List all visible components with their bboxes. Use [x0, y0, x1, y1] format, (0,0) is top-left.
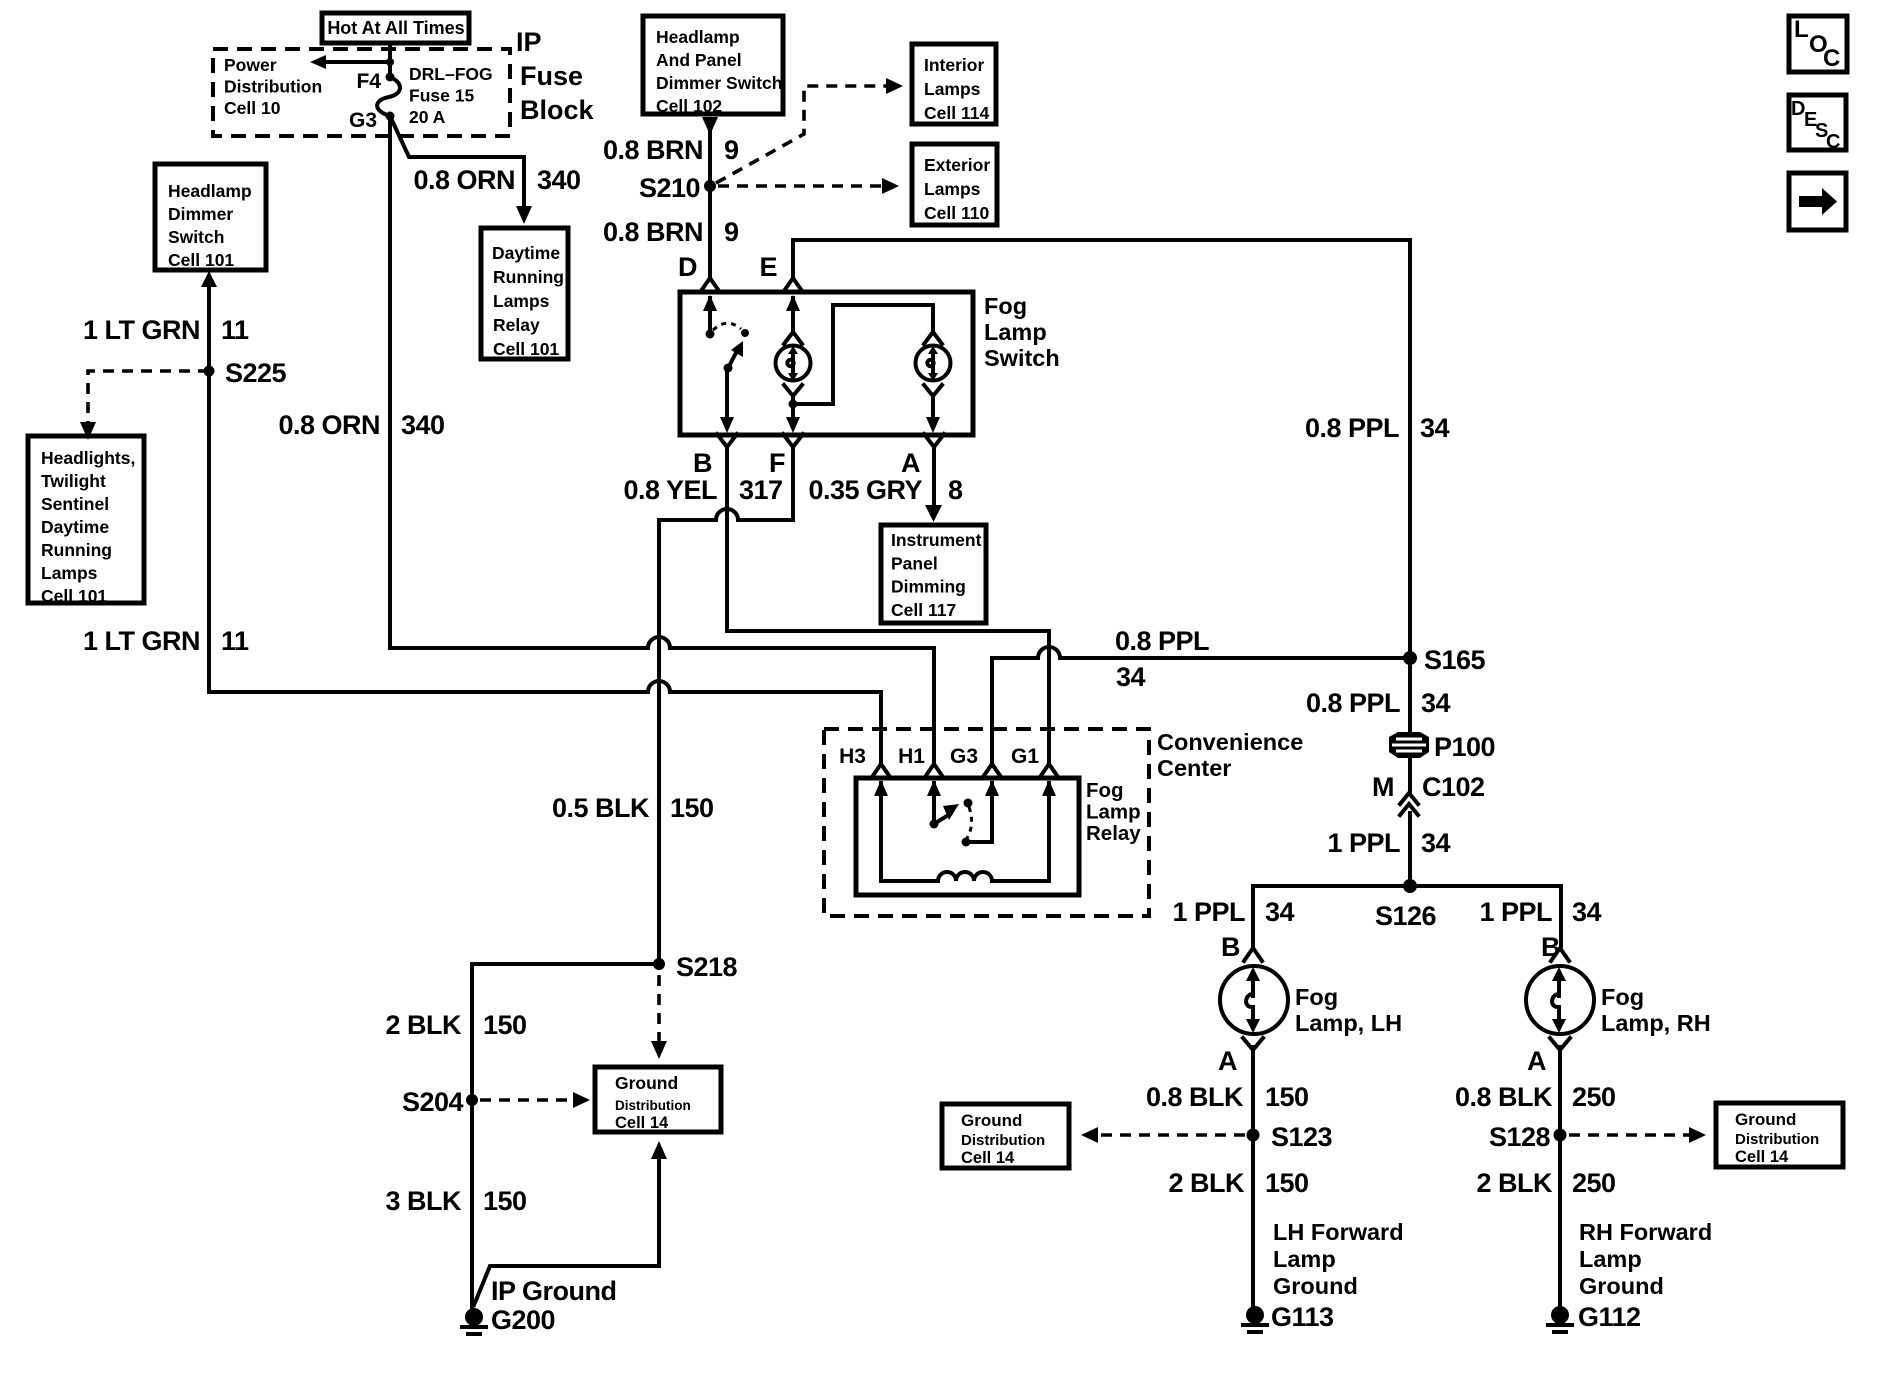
pin F chevron: [783, 434, 803, 455]
Daytime Running Lamps Relay Cell 101 box: [481, 228, 568, 359]
svg-text:2 BLK: 2 BLK: [1476, 1168, 1553, 1198]
ground G200: [462, 1308, 486, 1334]
grommet P100: [1389, 732, 1429, 758]
wire 0.8 BLK lamp LH to S123: [1251, 1047, 1255, 1307]
Headlamp And Panel Dimmer Switch Cell 102 box: [643, 16, 783, 116]
svg-text:Distribution: Distribution: [615, 1098, 691, 1113]
connector C102 chevrons: [1400, 793, 1418, 815]
svg-text:34: 34: [1572, 897, 1602, 927]
svg-text:9: 9: [724, 217, 739, 247]
chevron above lamp 2: [924, 332, 942, 344]
svg-text:34: 34: [1421, 828, 1451, 858]
chevron below lamp 1: [784, 385, 802, 396]
svg-text:A: A: [1218, 1046, 1237, 1076]
Instrument Panel Dimming Cell 117 box: [881, 525, 986, 623]
ground G113: [1243, 1306, 1267, 1332]
svg-text:S165: S165: [1424, 645, 1486, 675]
relay pin G1 chevron: [1040, 764, 1058, 777]
svg-text:E: E: [759, 252, 777, 282]
wire 1 PPL splitter to both fog lamps: [1253, 886, 1561, 946]
wire 0.35 GRY to Instrument Panel Dimming (solid arrow): [925, 455, 942, 522]
node S123: [1247, 1129, 1260, 1142]
svg-text:1 PPL: 1 PPL: [1479, 897, 1552, 927]
wire 0.8 PPL S165 to P100: [1408, 658, 1412, 733]
svg-text:M: M: [1372, 772, 1394, 802]
svg-text:H3: H3: [839, 745, 866, 768]
node F4: [386, 73, 395, 82]
IP fuse block dashed box: [213, 49, 510, 136]
node S165: [1403, 651, 1417, 665]
svg-text:34: 34: [1420, 413, 1450, 443]
dashed S123 to Ground Distribution (arrow left): [1081, 1127, 1245, 1143]
pin A chevron: [924, 434, 944, 455]
wire from Hot At All Times down to fuse: [388, 45, 392, 77]
svg-text:8: 8: [948, 475, 963, 505]
svg-text:2 BLK: 2 BLK: [385, 1010, 462, 1040]
fog lamp LH pin B chevron: [1244, 948, 1262, 961]
svg-text:H1: H1: [898, 745, 925, 768]
svg-text:340: 340: [401, 410, 445, 440]
illumination lamp 1: [776, 346, 811, 382]
svg-text:Cell 14: Cell 14: [961, 1149, 1015, 1167]
switch pole to pin B (arrow down): [720, 368, 734, 433]
node G3: [386, 112, 395, 121]
svg-text:Hot At All Times: Hot At All Times: [327, 18, 464, 38]
svg-text:0.8 BLK: 0.8 BLK: [1455, 1082, 1553, 1112]
svg-text:0.35 GRY: 0.35 GRY: [808, 475, 922, 505]
svg-text:Ground: Ground: [615, 1073, 678, 1093]
internal wire lamp1 node to lamp2: [793, 305, 933, 404]
svg-text:D: D: [678, 252, 697, 282]
svg-text:ExteriorLampsCell 110: ExteriorLampsCell 110: [924, 155, 990, 223]
svg-text:2 BLK: 2 BLK: [1168, 1168, 1245, 1198]
svg-text:150: 150: [1265, 1082, 1309, 1112]
svg-text:0.8 BRN: 0.8 BRN: [603, 217, 703, 247]
node S126: [1403, 879, 1417, 893]
switch E branch chevron: [784, 332, 802, 344]
svg-text:1 LT GRN: 1 LT GRN: [83, 626, 200, 656]
wire lamp2 to pin A (arrow down): [926, 397, 940, 433]
svg-text:S210: S210: [639, 173, 700, 203]
wire lamp1 node to pin F (arrow down): [786, 397, 800, 433]
svg-text:S218: S218: [676, 952, 738, 982]
switch D input contact (arrow up + dot): [703, 295, 717, 339]
svg-text:34: 34: [1421, 688, 1451, 718]
svg-text:A: A: [1527, 1046, 1546, 1076]
wire 0.8 YEL: switch B to relay G1 (passes under hop): [727, 455, 1049, 762]
svg-text:340: 340: [537, 165, 581, 195]
wire 0.8 ORN to DRL relay: [390, 116, 532, 224]
svg-text:0.8 ORN: 0.8 ORN: [413, 165, 515, 195]
chevron below lamp 2: [924, 385, 942, 396]
svg-text:150: 150: [483, 1186, 527, 1216]
svg-text:InteriorLampsCell 114: InteriorLampsCell 114: [924, 55, 989, 123]
Ground Distribution Cell 14 box (RH): [1716, 1103, 1843, 1167]
svg-text:S126: S126: [1375, 901, 1437, 931]
svg-text:G3: G3: [950, 745, 978, 768]
dashed reference to Headlights cell: [80, 371, 209, 440]
svg-text:S128: S128: [1489, 1122, 1551, 1152]
Fog Lamp Switch box: [680, 292, 973, 435]
dashed S128 to Ground Distribution (arrow right): [1569, 1127, 1706, 1143]
fog lamp RH pin A chevron: [1550, 1038, 1570, 1050]
svg-text:11: 11: [221, 315, 249, 345]
node S218: [653, 958, 665, 970]
relay armature H1: [927, 780, 973, 829]
svg-text:Distribution: Distribution: [1735, 1131, 1819, 1148]
svg-text:3 BLK: 3 BLK: [385, 1186, 462, 1216]
wire 0.8 ORN vertical from fuse G3 to H1 feed: [388, 116, 392, 648]
svg-text:0.8 BRN: 0.8 BRN: [603, 135, 703, 165]
wire 0.5 BLK: switch F to S218 (hops B wire): [659, 455, 793, 964]
svg-text:0.8 PPL: 0.8 PPL: [1115, 626, 1209, 656]
svg-text:C: C: [1826, 131, 1840, 153]
Hot At All Times box: [322, 13, 469, 43]
svg-text:0.8 PPL: 0.8 PPL: [1306, 688, 1400, 718]
Ground Distribution Cell 14 box (LH): [942, 1104, 1069, 1168]
svg-text:G3: G3: [349, 109, 377, 132]
wire 1 LT GRN from dimmer switch (arrow up into box): [201, 271, 217, 692]
wire 2 BLK S218 to S204: [472, 964, 659, 1307]
dashed S218 to Ground Distribution (arrow down): [651, 975, 667, 1059]
svg-text:0.8 ORN: 0.8 ORN: [278, 410, 380, 440]
svg-text:11: 11: [221, 626, 249, 656]
svg-text:1 PPL: 1 PPL: [1172, 897, 1245, 927]
Exterior Lamps Cell 110 box: [912, 144, 997, 225]
svg-text:S225: S225: [225, 358, 287, 388]
switch E branch arrow up: [786, 295, 800, 331]
svg-text:G200: G200: [491, 1305, 555, 1335]
node S225: [204, 366, 215, 377]
pin D chevron: [701, 278, 719, 291]
svg-text:B: B: [1221, 932, 1240, 962]
svg-text:34: 34: [1265, 897, 1295, 927]
svg-text:150: 150: [483, 1010, 527, 1040]
svg-text:C: C: [1823, 45, 1840, 72]
Interior Lamps Cell 114 box: [912, 44, 996, 124]
svg-text:Cell 14: Cell 14: [1735, 1148, 1789, 1166]
wire arrow to Power Distribution: [310, 55, 394, 69]
svg-text:G112: G112: [1578, 1302, 1641, 1332]
svg-text:0.8 BLK: 0.8 BLK: [1146, 1082, 1244, 1112]
node S204: [466, 1094, 478, 1106]
svg-text:250: 250: [1572, 1082, 1616, 1112]
fog lamp LH pin A chevron: [1243, 1038, 1263, 1050]
svg-text:150: 150: [1265, 1168, 1309, 1198]
svg-text:0.8 YEL: 0.8 YEL: [623, 475, 717, 505]
wire 0.8 ORN horizontal to relay H1 (hops ground wire at x659): [390, 637, 934, 762]
switch lever with arrow: [724, 341, 744, 373]
Headlights Twilight Sentinel box: [28, 436, 144, 606]
wire Ground Distribution to G200 (arrow up into box): [474, 1141, 667, 1305]
wire 0.8 BRN from dimmer switch (arrow down): [702, 117, 718, 277]
svg-text:S123: S123: [1271, 1122, 1333, 1152]
svg-text:G1: G1: [1011, 745, 1039, 768]
svg-text:Ground: Ground: [1735, 1110, 1796, 1129]
relay contact travel dashed arc: [967, 807, 972, 838]
svg-text:0.5 BLK: 0.5 BLK: [552, 793, 650, 823]
wire to connector C102: [1408, 757, 1412, 791]
wire 0.8 PPL from switch E to S165: [793, 240, 1410, 652]
wire 0.8 BLK lamp RH to S128: [1558, 1047, 1562, 1307]
relay pin G3 chevron: [983, 764, 1001, 777]
dashed S204 to Ground Distribution (arrow right): [480, 1092, 590, 1108]
relay pin H1 chevron: [925, 764, 943, 777]
svg-text:Cell 14: Cell 14: [615, 1114, 669, 1132]
dashed reference to Exterior Lamps: [718, 178, 899, 194]
svg-text:Distribution: Distribution: [961, 1132, 1045, 1149]
svg-text:317: 317: [739, 475, 783, 505]
node S210: [704, 180, 716, 192]
svg-text:B: B: [693, 448, 712, 478]
illumination lamp 2: [916, 346, 951, 382]
Ground Distribution Cell 14 box (IP): [595, 1067, 721, 1132]
switch throw contact dot: [741, 329, 749, 337]
svg-text:34: 34: [1116, 662, 1146, 692]
svg-text:B: B: [1541, 932, 1560, 962]
LOC icon box: [1789, 16, 1847, 72]
fog lamp RH bulb: [1526, 966, 1594, 1034]
svg-text:1 PPL: 1 PPL: [1327, 828, 1400, 858]
svg-text:F4: F4: [356, 70, 381, 93]
relay pin H3 chevron: [872, 764, 890, 777]
wire 1 LT GRN horizontal to relay H3 (hops ground wire at x659): [209, 681, 881, 762]
fuse F4 DRL-FOG 20A: [377, 77, 400, 116]
svg-text:F: F: [769, 448, 785, 478]
svg-text:9: 9: [724, 135, 739, 165]
Convenience Center dashed box: [824, 729, 1149, 916]
svg-text:1 LT GRN: 1 LT GRN: [83, 315, 200, 345]
svg-text:Ground: Ground: [961, 1111, 1022, 1130]
fog lamp LH bulb: [1220, 966, 1288, 1034]
wire 0.8 PPL: relay G3 up to S165 horizontal (hops G1 wire at x1049): [992, 647, 1403, 762]
ground G112: [1548, 1306, 1572, 1332]
svg-text:A: A: [901, 448, 920, 478]
Headlamp Dimmer Switch Cell 101 box: [155, 164, 266, 270]
svg-text:C102: C102: [1422, 772, 1485, 802]
relay coil H3 to G1: [874, 780, 1056, 881]
lamp 1 output node: [789, 400, 798, 409]
pin E chevron: [784, 278, 802, 291]
DESC icon box: [1789, 95, 1846, 153]
Fog Lamp Relay box: [856, 778, 1079, 895]
svg-text:S204: S204: [402, 1087, 464, 1117]
fog lamp RH pin B chevron: [1551, 948, 1569, 961]
svg-text:G113: G113: [1271, 1302, 1334, 1332]
forward arrow icon box: [1789, 173, 1846, 230]
svg-text:IP Ground: IP Ground: [491, 1276, 617, 1306]
svg-text:0.8 PPL: 0.8 PPL: [1305, 413, 1399, 443]
node S128: [1554, 1129, 1567, 1142]
svg-text:L: L: [1794, 16, 1809, 43]
svg-text:250: 250: [1572, 1168, 1616, 1198]
dashed reference to Interior Lamps: [716, 78, 903, 183]
svg-text:150: 150: [670, 793, 714, 823]
svg-text:P100: P100: [1434, 732, 1495, 762]
relay contact to G3: [962, 780, 1000, 847]
pin B chevron: [717, 434, 737, 455]
wire 1 PPL C102 to S126: [1408, 813, 1412, 886]
switch throw dashed arc: [713, 323, 741, 330]
